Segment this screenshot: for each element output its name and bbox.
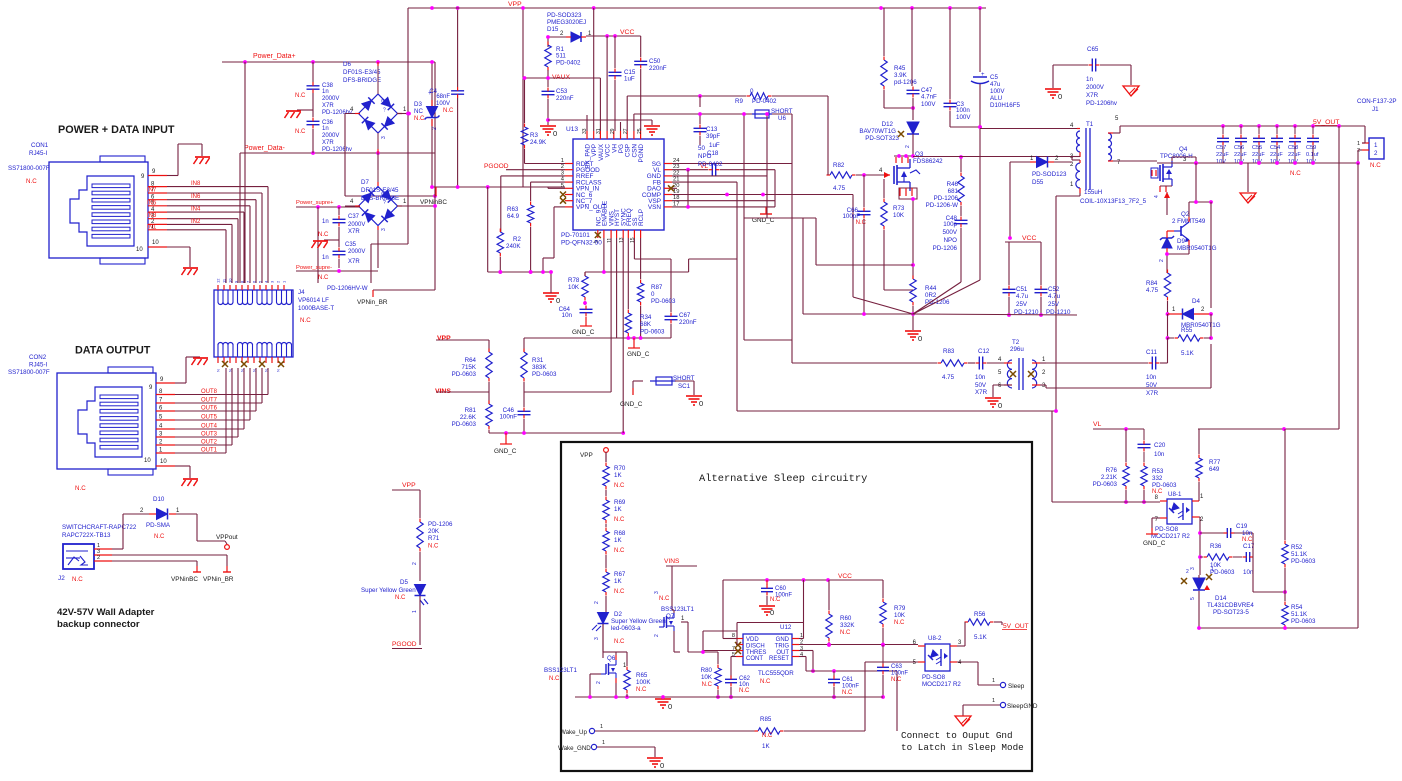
label VPNinBC (420, 199, 447, 206)
CON1 pin 2 stub (148, 223, 167, 225)
svg-text:VPP: VPP (508, 1, 522, 8)
CON2 pin 5 stub (156, 419, 175, 421)
D6 pin stubs (345, 62, 409, 153)
transformer J4 (214, 289, 334, 357)
capacitor C57 (1216, 126, 1229, 165)
svg-text:C63: C63 (891, 664, 903, 670)
wire C4 column (456, 6, 460, 187)
svg-text:R68: R68 (614, 530, 626, 537)
ground 0 under C65 left (1045, 89, 1062, 101)
svg-text:PD-0402: PD-0402 (556, 60, 581, 67)
svg-text:DFS-BRIDGE: DFS-BRIDGE (361, 195, 399, 202)
ground 0 right of C53 (644, 126, 660, 135)
CON2 pin 8 stub (156, 394, 175, 396)
capacitor C12 (975, 348, 990, 396)
svg-text:N.C: N.C (614, 548, 625, 554)
wire Q6 gate (590, 674, 601, 697)
svg-text:3: 3 (958, 640, 962, 646)
wire DAO stub (672, 187, 677, 189)
wire R73 leads (884, 179, 913, 290)
svg-text:C53: C53 (556, 88, 568, 95)
resistor R67 (603, 569, 626, 596)
svg-text:1: 1 (1070, 182, 1074, 188)
wire right vertical x1339 (1338, 126, 1340, 429)
chassis ground at CON1 pin10 (182, 268, 199, 275)
svg-text:D6: D6 (343, 61, 351, 68)
wire U8-2 pin4 to Sleep (957, 662, 1000, 685)
svg-text:OUT1: OUT1 (201, 448, 218, 454)
svg-text:332: 332 (1152, 475, 1163, 482)
terminal Wake_Up (560, 724, 603, 736)
svg-text:6: 6 (913, 640, 917, 646)
J4 bottom pin stubs (216, 357, 285, 372)
svg-text:SleepGND: SleepGND (1007, 703, 1038, 710)
svg-text:2: 2 (560, 31, 564, 37)
svg-text:5V_OUT: 5V_OUT (1003, 623, 1029, 630)
svg-text:1: 1 (602, 740, 605, 746)
net label VL at C18 (700, 163, 708, 170)
svg-text:2: 2 (654, 634, 660, 637)
CON2 pin 4 stub (156, 428, 175, 430)
terminal Sleep (1000, 682, 1024, 690)
wire D14 leads (1198, 575, 1200, 628)
stub VPNinBC (435, 187, 437, 196)
capacitor C66 (842, 207, 870, 226)
wire C53 to gnd (546, 99, 652, 125)
resistor R55 (1168, 335, 1212, 357)
svg-text:0: 0 (998, 401, 1002, 410)
transistor Q7 (654, 591, 694, 637)
wire VPN_IN drop to rail (487, 187, 489, 272)
svg-text:47u: 47u (990, 81, 1001, 88)
wire R60 leads (827, 580, 831, 647)
wire R85 right (784, 730, 865, 732)
label GND_C y338 (627, 351, 650, 358)
svg-text:1uF: 1uF (709, 142, 720, 149)
svg-text:X7R: X7R (348, 229, 360, 235)
capacitor C20 (1138, 429, 1166, 462)
svg-text:2: 2 (412, 562, 418, 565)
svg-text:64.9: 64.9 (507, 213, 520, 220)
svg-text:2: 2 (1070, 162, 1074, 168)
svg-text:10V: 10V (1306, 159, 1316, 165)
resistor R71 (417, 519, 453, 552)
J4 top pin stubs (216, 278, 287, 290)
ground 0 under T2 (985, 398, 1002, 410)
wire Q6 source (615, 683, 617, 697)
wire net IN3 (167, 219, 238, 283)
resistor R82 (827, 162, 856, 192)
wire VCC from D15 (586, 34, 641, 38)
svg-text:10V: 10V (1252, 159, 1262, 165)
svg-text:VPNin_BR: VPNin_BR (357, 299, 388, 306)
wire VPP left drop (371, 8, 410, 283)
svg-text:1: 1 (1042, 357, 1046, 363)
svg-text:R54: R54 (1291, 604, 1303, 611)
svg-text:IN7: IN7 (147, 188, 157, 194)
wire R53 leads (1142, 490, 1146, 504)
wire VAUX (525, 8, 601, 131)
resistor R53 (1141, 463, 1177, 496)
svg-text:VPP: VPP (402, 482, 416, 489)
svg-text:1: 1 (412, 610, 418, 613)
wire net OUT4 (175, 368, 244, 429)
svg-text:PD-1206: PD-1206 (934, 195, 959, 202)
svg-text:0: 0 (699, 399, 703, 408)
svg-text:N.C: N.C (300, 317, 311, 324)
wire resistor ladder links (605, 452, 607, 612)
svg-text:OUT8: OUT8 (201, 389, 218, 395)
svg-text:3: 3 (381, 136, 387, 139)
net label IN3 (147, 213, 157, 219)
svg-text:PD-70101: PD-70101 (561, 232, 590, 239)
resistor R63 (507, 202, 534, 227)
wire net IN1 (167, 230, 226, 283)
wire T1 sec top (1113, 126, 1223, 133)
capacitor C50 (634, 58, 667, 73)
svg-text:4: 4 (879, 168, 883, 174)
svg-text:Power_Data+: Power_Data+ (253, 53, 296, 60)
resistor R45 (881, 57, 917, 90)
svg-text:N.C: N.C (760, 679, 771, 685)
wire to VPNin_BR (373, 290, 435, 297)
wire Q4 drain (1172, 157, 1198, 165)
svg-text:100n: 100n (956, 107, 970, 114)
svg-text:N.C: N.C (702, 682, 713, 688)
diode D12 (859, 121, 919, 142)
svg-text:R76: R76 (1106, 467, 1118, 474)
svg-text:1: 1 (403, 199, 407, 205)
svg-text:22uF: 22uF (1252, 152, 1265, 158)
svg-text:0.1uf: 0.1uf (1306, 152, 1319, 158)
svg-text:Power_Data-: Power_Data- (244, 145, 286, 152)
svg-text:PGOOD: PGOOD (484, 163, 509, 170)
wire R45 column (884, 8, 915, 110)
resistor R69 (603, 497, 626, 524)
text title POWER + DATA INPUT (58, 124, 175, 136)
svg-text:4.75: 4.75 (833, 185, 846, 192)
svg-text:R64: R64 (465, 357, 477, 364)
wire OUT line (799, 651, 815, 673)
svg-text:1n: 1n (322, 126, 329, 132)
ground 0 under C60 (759, 606, 775, 617)
wire R77 leads (1198, 429, 1200, 501)
svg-text:R56: R56 (974, 611, 986, 618)
svg-text:0: 0 (770, 608, 774, 617)
label VPNinBC J2 (171, 576, 198, 583)
svg-text:D5: D5 (400, 579, 408, 586)
svg-text:8: 8 (1155, 495, 1159, 501)
resistor R44 (910, 276, 950, 307)
wire R76 leads (1124, 429, 1128, 504)
wire D7 top to Data- (377, 153, 379, 170)
capacitor C63 (877, 645, 908, 699)
sleep box border (561, 442, 1032, 771)
svg-text:2.21K: 2.21K (1101, 474, 1118, 481)
svg-text:R73: R73 (893, 205, 905, 212)
svg-text:1: 1 (992, 678, 995, 684)
svg-text:IN6: IN6 (191, 194, 201, 200)
resistor R68 (603, 528, 626, 555)
capacitor C47 (907, 87, 938, 109)
svg-text:0R2: 0R2 (925, 292, 937, 299)
svg-text:C54: C54 (1270, 145, 1280, 151)
J4 bottom no-connect marks (222, 361, 284, 367)
wire T1 pin4 line (980, 123, 1080, 129)
svg-text:1uF: 1uF (624, 76, 635, 83)
wire Power_Data+ rail (222, 60, 435, 64)
svg-text:9: 9 (141, 174, 145, 180)
connector CON2 RJ45 (8, 354, 156, 492)
svg-text:PD-QFN32-50: PD-QFN32-50 (561, 240, 602, 247)
wire Power_supre+ rail (296, 205, 360, 209)
svg-text:R85: R85 (760, 716, 772, 723)
net label VCC (620, 29, 634, 36)
capacitor C37 (318, 214, 365, 238)
svg-text:4.75: 4.75 (1146, 287, 1159, 294)
svg-text:COIL-10X13F13_7F2_5: COIL-10X13F13_7F2_5 (1080, 198, 1147, 205)
svg-text:PD-SOD323: PD-SOD323 (547, 12, 582, 19)
fuse SHORT U6 (752, 108, 793, 122)
svg-text:C57: C57 (1216, 145, 1226, 151)
svg-text:10V: 10V (1288, 159, 1298, 165)
svg-text:C11: C11 (1146, 349, 1157, 356)
wire R54 leads (1284, 592, 1286, 629)
op-amp U13 PD-70101 (561, 126, 680, 247)
svg-text:25V: 25V (1016, 301, 1028, 308)
svg-text:VPPout: VPPout (216, 534, 238, 541)
svg-text:C35: C35 (345, 242, 357, 248)
svg-text:X7R: X7R (1086, 92, 1099, 99)
svg-text:10n: 10n (1243, 569, 1254, 576)
wire GND line U13 (672, 175, 767, 177)
svg-text:1K: 1K (762, 743, 770, 750)
wire R9 left (627, 94, 746, 107)
svg-text:D12: D12 (882, 121, 894, 128)
CON2 pin 6 stub (156, 410, 175, 412)
svg-text:N.C: N.C (891, 677, 902, 683)
net label OUT1 (201, 448, 218, 454)
svg-text:649: 649 (1209, 466, 1220, 473)
wire R3 bottom (524, 149, 526, 164)
net label VCC sleep (838, 573, 852, 580)
resistor R65 (624, 667, 652, 694)
svg-text:U6: U6 (778, 115, 786, 122)
wire y388 line (1046, 387, 1211, 389)
svg-text:12: 12 (216, 278, 221, 283)
svg-text:1n: 1n (1086, 76, 1093, 83)
net label 5V_OUT sleep (1002, 623, 1029, 630)
fuse SHORT SC1 (650, 375, 695, 390)
transformer T1 (1076, 121, 1113, 193)
wire C5 column (978, 8, 982, 280)
svg-text:TL431CDBVRE4: TL431CDBVRE4 (1207, 602, 1254, 609)
resistor R77 (1196, 455, 1221, 482)
svg-text:to Latch in Sleep Mode: to Latch in Sleep Mode (901, 742, 1024, 753)
svg-text:240K: 240K (506, 243, 521, 250)
net label OUT2 (201, 440, 218, 446)
wire net OUT1 (175, 368, 226, 453)
wire sleep gnd rail y697 (575, 694, 663, 699)
svg-text:R45: R45 (894, 65, 906, 72)
ground flag out (1240, 193, 1256, 203)
svg-text:PGOOD: PGOOD (392, 641, 417, 648)
svg-text:2: 2 (1374, 150, 1378, 157)
svg-text:100K: 100K (636, 679, 651, 686)
svg-text:R52: R52 (1291, 544, 1303, 551)
wire VINS sleep (666, 566, 697, 610)
wire SleepGND (963, 698, 1000, 716)
svg-text:+: + (981, 72, 985, 78)
wire C46 leads (523, 419, 525, 433)
svg-text:GND_C: GND_C (494, 448, 517, 455)
label VPNin_BR J2 (203, 576, 234, 583)
svg-text:R55: R55 (1181, 327, 1193, 334)
svg-text:VSN: VSN (648, 204, 662, 211)
svg-text:100V: 100V (990, 88, 1005, 95)
svg-text:1: 1 (1357, 141, 1360, 147)
svg-text:R46: R46 (947, 181, 959, 188)
svg-text:N: N (252, 369, 257, 372)
label T1 value (1080, 189, 1147, 205)
svg-text:N.C: N.C (549, 676, 560, 682)
svg-text:PD-0603: PD-0603 (1291, 618, 1316, 625)
svg-text:PD-0603: PD-0603 (1291, 558, 1316, 565)
svg-text:2: 2 (381, 99, 387, 102)
wire net IN8 (167, 187, 268, 283)
net label VAUX (552, 74, 570, 81)
capacitor C53 (542, 88, 574, 103)
svg-text:R2: R2 (513, 236, 521, 243)
CON2 pin 10 stub (156, 465, 175, 467)
svg-text:4: 4 (350, 107, 354, 113)
wire net OUT7 (175, 368, 262, 403)
wire 5V rail y126 (1120, 124, 1365, 128)
svg-text:5: 5 (1190, 597, 1196, 600)
transistor Q6 (544, 655, 627, 684)
svg-text:332K: 332K (840, 622, 855, 629)
wire R65 connect (616, 652, 627, 666)
capacitor C48 (933, 215, 968, 252)
resistor R54 (1282, 602, 1316, 629)
label GND_C under C64 (572, 329, 595, 336)
svg-text:BSS123LT1: BSS123LT1 (661, 606, 694, 613)
label GND_C near U13 (752, 217, 775, 224)
svg-text:N.C: N.C (894, 620, 905, 626)
svg-text:N.C: N.C (614, 589, 625, 595)
wire THRES line (703, 631, 737, 651)
resistor R83 (938, 348, 968, 381)
wire D2 to Q6 (602, 624, 604, 658)
svg-text:1: 1 (681, 616, 685, 622)
svg-text:39pF: 39pF (706, 133, 720, 140)
svg-text:N.C: N.C (318, 275, 329, 281)
wire T1 pin3-2 junction (1072, 157, 1080, 161)
svg-text:N.C: N.C (856, 220, 867, 226)
svg-text:1: 1 (992, 698, 995, 704)
svg-text:IN1: IN1 (147, 224, 157, 230)
stub GND_C y338 (628, 338, 640, 348)
no-connect marks U13 NC pins (560, 185, 674, 238)
svg-text:1: 1 (403, 107, 407, 113)
svg-text:RCLP: RCLP (638, 209, 645, 226)
svg-text:PMEG3020EJ: PMEG3020EJ (547, 19, 586, 26)
wire VSP line (672, 200, 775, 202)
svg-text:51.1K: 51.1K (1291, 551, 1308, 558)
label N.C cap bank (1290, 170, 1301, 177)
capacitor C60 (761, 580, 792, 605)
resistor R46 (926, 173, 965, 210)
chassis ground at CON2 pin10 (182, 479, 199, 486)
svg-text:N.C: N.C (75, 485, 86, 492)
svg-text:1n: 1n (322, 219, 329, 225)
svg-text:PD-0402: PD-0402 (698, 161, 723, 168)
transformer T2 (998, 339, 1046, 390)
svg-text:2: 2 (381, 192, 387, 195)
svg-text:1n: 1n (322, 89, 329, 95)
wire C47 column (912, 8, 913, 120)
terminal VPPout (216, 534, 238, 549)
wire sleep gnd rail long (661, 695, 883, 699)
wire R82 ends (828, 171, 884, 177)
svg-text:U13: U13 (566, 126, 578, 133)
svg-text:D4: D4 (1192, 298, 1200, 305)
CON1 pin 1 stub (148, 229, 167, 231)
wire Power_Data- rail (240, 151, 435, 155)
resistor R9 (735, 88, 777, 105)
svg-text:R34: R34 (640, 314, 652, 321)
net stub VPNin_BR (357, 299, 388, 306)
connector J2 (58, 544, 94, 583)
svg-text:PD-1206HV-W: PD-1206HV-W (327, 285, 368, 292)
svg-text:VDD: VDD (746, 637, 759, 643)
wire R80 leads (688, 650, 720, 699)
wire caps to rail y315 (1007, 297, 1043, 317)
wire Power_supre- rail (296, 269, 378, 273)
svg-text:22uF: 22uF (1270, 152, 1283, 158)
resistor R2 (497, 229, 521, 257)
CON2 pin 1 stub (156, 452, 175, 454)
svg-text:?: ? (383, 108, 386, 114)
svg-text:1: 1 (1172, 307, 1176, 313)
svg-text:PD-SOT323: PD-SOT323 (865, 135, 899, 142)
wire net IN7 (167, 193, 262, 283)
svg-text:2000V: 2000V (322, 133, 339, 139)
net label IN8 (191, 181, 201, 187)
wire Q6 drain to rail (603, 624, 616, 655)
svg-text:C65: C65 (1087, 46, 1099, 53)
svg-text:10n: 10n (1242, 530, 1253, 537)
svg-text:0: 0 (556, 296, 560, 305)
svg-text:3: 3 (654, 591, 660, 594)
chassis ground at CON2 pin9 (192, 358, 209, 365)
svg-text:VPP: VPP (437, 335, 451, 342)
svg-text:T1: T1 (1086, 121, 1094, 128)
net label VL right (1093, 421, 1102, 428)
svg-text:3: 3 (381, 228, 387, 231)
wire J2 pin2 long (112, 561, 201, 572)
svg-text:1: 1 (1211, 567, 1214, 573)
svg-text:10K: 10K (894, 612, 906, 619)
wire VL line (672, 168, 708, 172)
svg-text:GND_C: GND_C (620, 401, 643, 408)
svg-text:27: 27 (623, 128, 629, 134)
wire gnd tap (1247, 163, 1249, 192)
wire Q7 connections (672, 610, 680, 652)
resistor R73 (881, 199, 905, 230)
capacitor C3 (944, 100, 972, 122)
svg-text:N.C: N.C (842, 690, 853, 696)
